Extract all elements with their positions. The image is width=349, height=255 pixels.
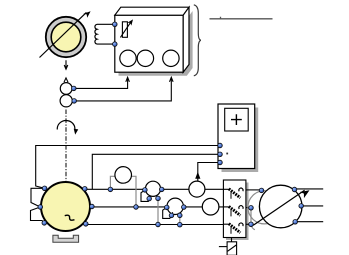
output line 1: [295, 188, 324, 190]
shaft axis (dash-dot): [65, 110, 67, 182]
switch pole 1: [223, 188, 243, 199]
bus3 stub to regulator: [246, 223, 251, 225]
node: PS top: [218, 143, 223, 148]
node: PS bottom: [218, 160, 223, 165]
node: cluster1 left: [143, 188, 148, 193]
node: generator left 3: [42, 221, 47, 226]
callout line: [210, 17, 273, 19]
wire: star chain segment node1-node2: [31, 188, 45, 207]
meter V2 inline on bus2: [202, 198, 219, 215]
variable resistor R1 in panel: [120, 18, 134, 38]
bus line 3: [86, 224, 224, 226]
node: cluster1 bottom right: [156, 196, 161, 201]
slip ring S2: [60, 95, 72, 107]
bus2 stub to regulator: [246, 207, 251, 209]
node: generator right 2: [90, 204, 95, 209]
wire slip ring S2 to panel with arrow: [74, 77, 174, 101]
node: cluster2 right: [182, 205, 187, 210]
switch pole 2: [223, 206, 243, 217]
node: cluster1 right: [159, 187, 164, 192]
output line 2: [301, 205, 323, 207]
generator base: [53, 235, 79, 242]
node: PS middle: [218, 152, 223, 157]
panel meter M1: [120, 50, 136, 66]
mechanical link arrow (down): [64, 60, 68, 69]
node: cluster1 bottom left: [147, 196, 152, 201]
ammeter A1: [110, 167, 136, 207]
node: coil top: [113, 22, 118, 27]
wire coil to panel (bottom): [97, 43, 115, 45]
induction regulator stator: [253, 185, 311, 228]
arrow into meter V1: [195, 172, 200, 179]
node: generator left 2: [38, 205, 43, 210]
bus line 2: [92, 206, 224, 208]
switch box Q1: [223, 180, 246, 238]
wire coil to panel (top): [97, 23, 115, 25]
node: regulator right: [299, 204, 304, 209]
node: regulator left top: [249, 206, 254, 211]
node: generator right 1: [83, 187, 88, 192]
node: regulator left bottom: [249, 222, 254, 227]
bus line 1: [85, 188, 224, 190]
node: regulator top right: [292, 187, 297, 192]
node: regulator bottom right: [293, 220, 298, 225]
tiny mark near PS middle node: [226, 153, 228, 155]
slip ring S1: [60, 83, 72, 95]
node: slip ring S2: [72, 99, 77, 104]
node: cluster2 left: [165, 205, 170, 210]
panel meter M2: [137, 50, 153, 66]
rotation arrow: [57, 120, 78, 134]
node: generator right 3: [84, 222, 89, 227]
node: bus2 at A1: [134, 205, 139, 210]
generator G1: [41, 182, 90, 231]
wire: power supply middle to bus 1: [92, 154, 219, 189]
wire slip ring S1 to panel with arrow: [74, 77, 130, 88]
node: bus3 left: [156, 222, 161, 227]
wire: star chain segment node2-node3: [31, 207, 45, 223]
node: regulator top left: [259, 188, 264, 193]
CT cluster on bus2 (meter with loop): [163, 198, 184, 225]
meter V1 inline on bus1: [189, 181, 205, 197]
switch pole 3: [223, 223, 243, 234]
node: cluster2 bottom: [178, 213, 183, 218]
power supply box shadow: [222, 108, 259, 173]
switch box shadow: [226, 183, 249, 241]
wire: power supply bottom to meter V1: [198, 163, 219, 182]
node: slip ring S1: [72, 86, 77, 91]
induction regulator rotor (gray circle): [248, 191, 281, 224]
brace: [194, 5, 201, 76]
trip coil below switch box: [219, 238, 237, 255]
CT cluster on bus1 (meter with loop): [141, 181, 161, 224]
node: cluster2 bottom left: [169, 213, 174, 218]
wire: top feed from star point to power supply: [36, 146, 219, 189]
coil L1: [95, 24, 97, 44]
power supply box PS: [218, 104, 255, 169]
node: bus3 right: [178, 222, 183, 227]
panel box shadow: [119, 11, 193, 76]
node: bus1 at A1: [108, 187, 113, 192]
mechanical link arrow (up): [64, 78, 68, 82]
bus1 stub to regulator: [246, 189, 262, 191]
panel box (3D): [115, 7, 189, 72]
regulator rotor link (gray): [251, 208, 255, 230]
node: coil bottom: [113, 42, 118, 47]
output line 3: [295, 221, 323, 223]
panel meter M3: [163, 50, 179, 66]
node: generator left 1: [42, 186, 47, 191]
plus display of PS: [225, 108, 249, 131]
variac T1 (drive dial): [40, 9, 93, 58]
